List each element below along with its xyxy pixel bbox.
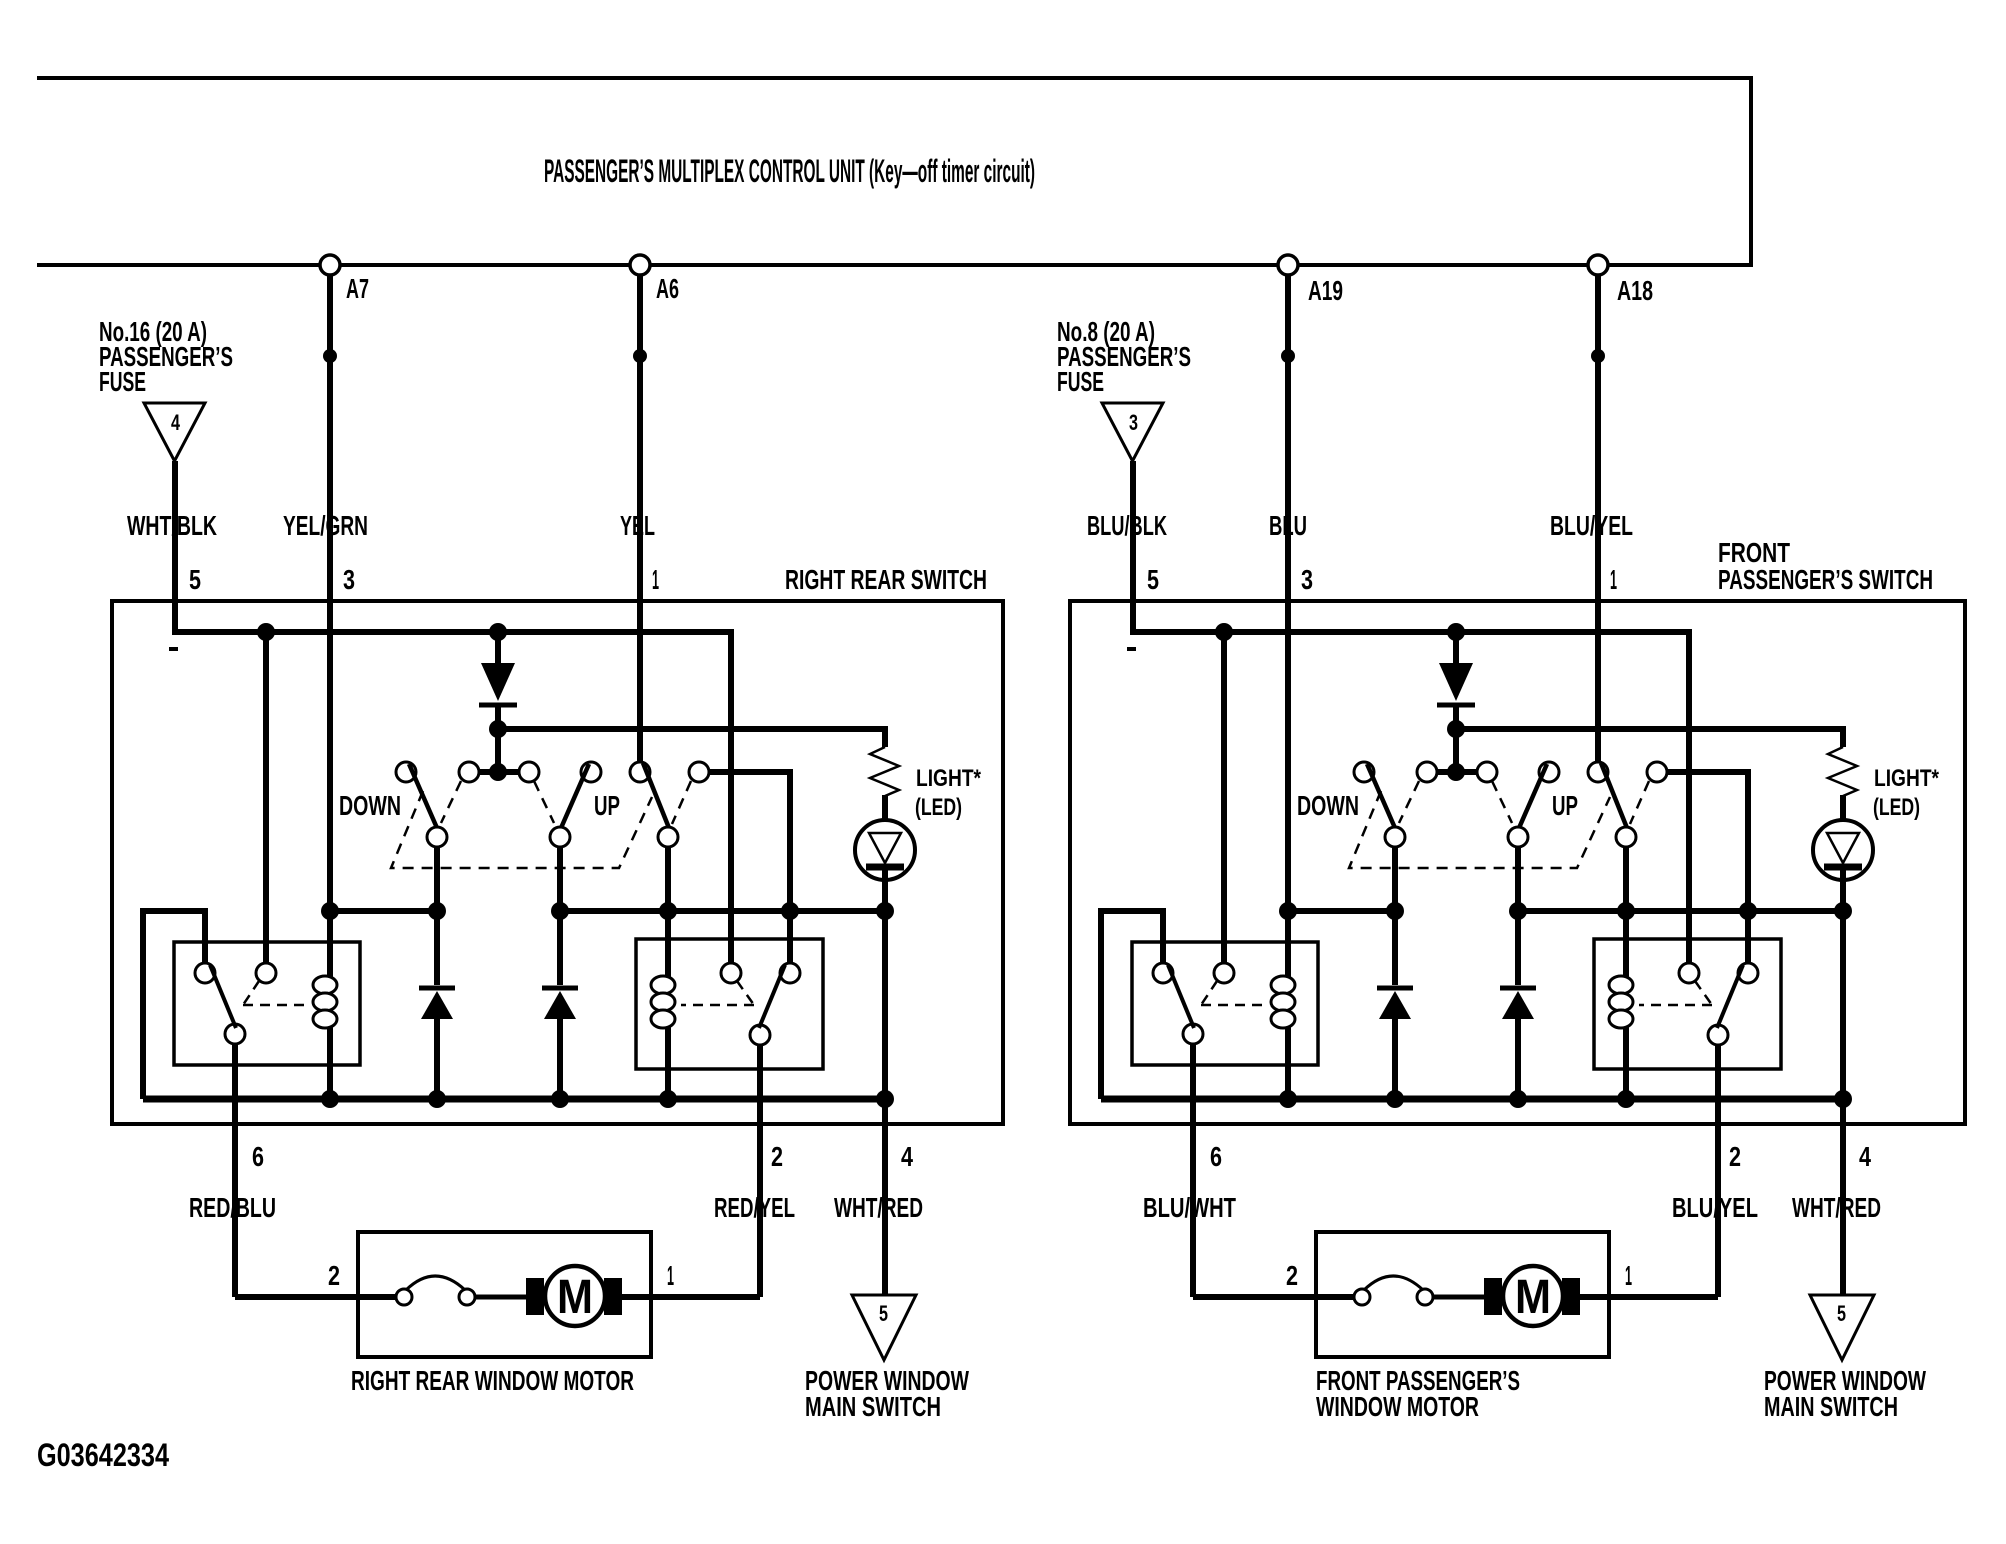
connector pin A6 circle on control unit (630, 255, 650, 275)
junction dot at switch common contact row (1447, 763, 1465, 781)
LED R-LED1 LIGHT (LED) indicator (1813, 820, 1873, 880)
relay R-K1 armature lever (1168, 965, 1194, 1028)
rocker mechanical linkage frame (dashed) (391, 791, 652, 868)
rocker mechanical linkage frame (dashed) (1349, 791, 1610, 868)
svg-text:1: 1 (1610, 564, 1617, 595)
svg-text:5: 5 (1837, 1301, 1846, 1326)
wire UP lower contact 1 to diode D3 (557, 847, 563, 985)
relay L-K1 box (174, 942, 360, 1065)
wire DOWN lower contact to diode D2 (434, 847, 440, 985)
resistor R-R1 (LED series resistor) (1828, 747, 1857, 796)
junction dot feed/relay-1 branch (1215, 623, 1233, 641)
circuit breaker in motor (396, 1289, 412, 1305)
svg-text:5: 5 (879, 1301, 888, 1326)
junction dot at switch common contact row (489, 763, 507, 781)
connector triangle 5 POWER WINDOW MAIN SWITCH (1810, 1295, 1874, 1360)
svg-text:6: 6 (252, 1141, 264, 1172)
wire breaker to motor (475, 1295, 528, 1300)
relay L-K2 common wire down to pin 2 (757, 1045, 763, 1297)
junction dot mid-bus / D3 (1509, 902, 1527, 920)
wire LED cathode down to bus and pin 4 (1840, 867, 1846, 1295)
svg-text:2: 2 (1729, 1141, 1741, 1172)
relay L-K2 linkage (dashed) (681, 981, 754, 1005)
stray scan mark (1127, 647, 1136, 651)
DOWN switch moving contact (lever) (409, 764, 437, 828)
junction dot feed/diode branch (1447, 623, 1465, 641)
svg-text:M: M (1515, 1271, 1551, 1324)
UP switch alternate position 1 (dashed) (1492, 781, 1512, 823)
wire YEL/GRN from control unit pin A7 (x=330) (327, 275, 333, 1099)
relay R-K2 coil (1609, 976, 1633, 994)
svg-text:G03642334: G03642334 (37, 1437, 169, 1473)
svg-text:WHT/RED: WHT/RED (834, 1192, 923, 1223)
wire from feed junction down to relay 1 contact (263, 632, 269, 963)
wire from feed junction down to relay 1 contact (1221, 632, 1227, 963)
UP switch lower contact circle 1 (550, 827, 570, 847)
svg-text:MAIN SWITCH: MAIN SWITCH (805, 1391, 941, 1422)
junction dot bottom bus / D3 (551, 1090, 569, 1108)
diode L-D1 (feed to switch common) (495, 632, 501, 664)
window motor box (FRONT PASSENGER'S WINDOW MOTOR) (1316, 1232, 1609, 1357)
wire LED cathode down to bus and pin 4 (882, 867, 888, 1295)
junction dot mid-bus / relay 2 coil wire (659, 902, 677, 920)
DOWN switch fixed contact circles (1354, 762, 1374, 782)
svg-text:5: 5 (1147, 564, 1159, 595)
diode R-D1 (feed to switch common) (1453, 632, 1459, 664)
connector pin A19 circle on control unit (1278, 255, 1298, 275)
svg-text:LIGHT*: LIGHT* (916, 765, 982, 792)
motor L-M1 (M) (526, 1278, 544, 1315)
wire hook from relay 1 top-left contact to bottom bus (1101, 911, 1163, 1099)
svg-text:3: 3 (1129, 410, 1138, 435)
splice dot on YEL wire (633, 349, 647, 363)
svg-text:5: 5 (189, 564, 201, 595)
UP switch moving contact lever 1 (561, 764, 589, 828)
svg-text:RED/BLU: RED/BLU (189, 1192, 276, 1223)
wire mid bus segment A (coil feed to diode D2) (1288, 908, 1395, 914)
relay R-K1 linkage (dashed) (1201, 981, 1267, 1005)
switch unit box (RIGHT REAR SWITCH) (112, 601, 1003, 1124)
wire inner top feed (from pin 5 across switch) (1130, 629, 1689, 635)
fuse symbol triangle 4 (No.16 (20 A)) (144, 403, 205, 461)
junction dot feed/diode branch (489, 623, 507, 641)
wire bottom bus (ground side) (143, 1096, 885, 1103)
wire BLU/BLK from fuse down into switch (1130, 461, 1136, 635)
junction dot mid-bus / relay 1 coil wire (321, 902, 339, 920)
svg-text:4: 4 (171, 410, 181, 435)
wire from diode junction to LIGHT (LED) resistor (498, 729, 885, 747)
svg-text:WHT/RED: WHT/RED (1792, 1192, 1881, 1223)
connector pin A7 circle on control unit (320, 255, 340, 275)
junction dot bottom bus / D2 (1386, 1090, 1404, 1108)
relay L-K1 armature lever (210, 965, 236, 1028)
wire hook from relay 1 top-left contact to bottom bus (143, 911, 205, 1099)
wire from feed down to relay 2 switch common (1686, 629, 1692, 963)
svg-text:3: 3 (343, 564, 355, 595)
DOWN switch fixed contact circles (396, 762, 416, 782)
svg-text:1: 1 (652, 564, 659, 595)
wire YEL from control unit pin A6 (x=640) (637, 275, 643, 762)
relay R-K2 linkage (dashed) (1639, 981, 1712, 1005)
wire inner top feed (from pin 5 across switch) (172, 629, 731, 635)
relay L-K1 coil (313, 976, 337, 994)
svg-text:WHT/BLK: WHT/BLK (127, 510, 217, 541)
wire motor to pin 2 wire (1580, 1294, 1718, 1300)
junction dot bottom bus / pin 4 wire (1834, 1090, 1852, 1108)
svg-text:BLU: BLU (1269, 510, 1307, 541)
svg-text:A7: A7 (346, 273, 369, 304)
relay L-K2 contact circles (721, 963, 741, 983)
motor R-M1 (M) (1484, 1278, 1502, 1315)
splice dot on BLU/YEL wire (1591, 349, 1605, 363)
relay R-K1 contact circles (1153, 963, 1173, 983)
splice dot on BLU wire (1281, 349, 1295, 363)
svg-text:YEL: YEL (620, 510, 655, 541)
UP switch fixed contact circles (1539, 762, 1559, 782)
UP switch fixed contact circles (581, 762, 601, 782)
svg-text:2: 2 (1286, 1260, 1298, 1291)
svg-text:2: 2 (328, 1260, 340, 1291)
svg-text:A18: A18 (1617, 275, 1653, 306)
relay L-K2 box (636, 939, 823, 1069)
svg-text:1: 1 (667, 1260, 674, 1291)
svg-text:M: M (557, 1271, 593, 1324)
wire UP lower contact 2 to relay 2 coil (1623, 847, 1629, 1099)
svg-text:DOWN: DOWN (1297, 790, 1359, 821)
relay L-K1 common wire down to pin 6 (232, 1044, 238, 1297)
wire BLU/WHT to motor (1193, 1294, 1354, 1300)
svg-text:PASSENGER’S SWITCH: PASSENGER’S SWITCH (1718, 564, 1933, 595)
junction dot bottom bus / relay 2 coil (1617, 1090, 1635, 1108)
wire BLU/YEL from control unit pin A18 (x=1598) (1595, 275, 1601, 762)
DOWN switch alternate position (dashed) (1399, 781, 1419, 823)
wire UP lower contact 1 to diode D3 (1515, 847, 1521, 985)
UP switch lower contact circle 2 (658, 827, 678, 847)
svg-text:2: 2 (771, 1141, 783, 1172)
UP switch moving contact lever 1 (1519, 764, 1547, 828)
svg-text:6: 6 (1210, 1141, 1222, 1172)
wire mid bus segment B (diode D3 to LED) (560, 908, 885, 914)
junction dot below diode L-D1 (LED branch) (489, 720, 507, 738)
connector pin A18 circle on control unit (1588, 255, 1608, 275)
DOWN switch alternate position (dashed) (441, 781, 461, 823)
UP switch alternate position 2 (dashed) (672, 781, 691, 824)
wire from c6 contact to relay 2 coil-side contact (709, 772, 790, 963)
relay R-K1 coil (1271, 976, 1295, 994)
svg-text:A19: A19 (1308, 275, 1343, 306)
junction dot bottom bus / relay 1 coil (1279, 1090, 1297, 1108)
wire BLU from control unit pin A19 (x=1288) (1285, 275, 1291, 1099)
UP switch moving contact lever 2 (1601, 763, 1627, 828)
svg-text:4: 4 (901, 1141, 913, 1172)
wire mid bus segment A (coil feed to diode D2) (330, 908, 437, 914)
fuse symbol triangle 3 (No.8 (20 A)) (1102, 403, 1163, 461)
svg-text:FUSE: FUSE (99, 366, 146, 397)
junction dot bottom bus / pin 4 wire (876, 1090, 894, 1108)
diode L-D3 (up side) (542, 986, 578, 991)
svg-text:RED/YEL: RED/YEL (714, 1192, 795, 1223)
svg-text:BLU/YEL: BLU/YEL (1550, 510, 1633, 541)
junction dot mid-bus / c6 wire (1739, 902, 1757, 920)
svg-text:PASSENGER’S MULTIPLEX CONTROL: PASSENGER’S MULTIPLEX CONTROL UNIT (Key—… (544, 153, 1035, 189)
svg-text:BLU/BLK: BLU/BLK (1087, 510, 1167, 541)
relay R-K2 contact circles (1679, 963, 1699, 983)
diode R-D3 (up side) (1500, 986, 1536, 991)
wire from c6 contact to relay 2 coil-side contact (1667, 772, 1748, 963)
svg-text:UP: UP (1552, 790, 1578, 821)
junction dot mid-bus / D3 (551, 902, 569, 920)
relay R-K2 common wire down to pin 2 (1715, 1045, 1721, 1297)
junction dot mid-bus / relay 1 coil wire (1279, 902, 1297, 920)
connector triangle 5 POWER WINDOW MAIN SWITCH (852, 1295, 916, 1360)
svg-text:RIGHT REAR WINDOW MOTOR: RIGHT REAR WINDOW MOTOR (351, 1365, 634, 1396)
svg-text:(LED): (LED) (1873, 794, 1920, 821)
window motor box (RIGHT REAR WINDOW MOTOR) (358, 1232, 651, 1357)
diode L-D2 (down side) (419, 986, 455, 991)
relay L-K2 armature lever (759, 965, 785, 1028)
relay R-K1 common wire down to pin 6 (1190, 1044, 1196, 1297)
LED L-LED1 LIGHT (LED) indicator (855, 820, 915, 880)
svg-text:A6: A6 (656, 273, 679, 304)
wire from feed down to relay 2 switch common (728, 629, 734, 963)
wire motor to pin 2 wire (622, 1294, 760, 1300)
svg-text:DOWN: DOWN (339, 790, 401, 821)
svg-text:BLU/YEL: BLU/YEL (1672, 1192, 1758, 1223)
wire resistor to LED (882, 795, 888, 836)
junction dot bottom bus / relay 2 coil (659, 1090, 677, 1108)
svg-text:WINDOW MOTOR: WINDOW MOTOR (1316, 1391, 1479, 1422)
DOWN switch lower contact circle (1385, 827, 1405, 847)
junction dot below diode R-D1 (LED branch) (1447, 720, 1465, 738)
wire linking DOWN contacts (with common) (479, 769, 519, 775)
junction dot mid-bus / relay 2 coil wire (1617, 902, 1635, 920)
relay L-K1 contact circles (195, 963, 215, 983)
UP switch alternate position 1 (dashed) (534, 781, 554, 823)
svg-text:YEL/GRN: YEL/GRN (283, 510, 368, 541)
wire linking DOWN contacts (with common) (1437, 769, 1477, 775)
relay R-K1 box (1132, 942, 1318, 1065)
switch unit box (FRONT PASSENGER'S SWITCH) (1070, 601, 1965, 1124)
svg-text:(LED): (LED) (915, 794, 962, 821)
junction dot mid-bus / LED wire (1834, 902, 1852, 920)
wire DOWN lower contact to diode D2 (1392, 847, 1398, 985)
svg-text:1: 1 (1625, 1260, 1632, 1291)
wire breaker to motor (1433, 1295, 1486, 1300)
UP switch moving contact lever 2 (643, 763, 669, 828)
junction dot bottom bus / D3 (1509, 1090, 1527, 1108)
junction dot bottom bus / D2 (428, 1090, 446, 1108)
stray scan mark (169, 647, 178, 651)
relay L-K1 linkage (dashed) (243, 981, 309, 1005)
relay R-K2 box (1594, 939, 1781, 1069)
wire bottom bus (ground side) (1101, 1096, 1843, 1103)
UP switch lower contact circle 2 (1616, 827, 1636, 847)
wire WHT/BLK from fuse down into switch (172, 461, 178, 635)
wire from diode junction to LIGHT (LED) resistor (1456, 729, 1843, 747)
junction dot mid-bus / c6 wire (781, 902, 799, 920)
junction dot feed/relay-1 branch (257, 623, 275, 641)
UP switch alternate position 2 (dashed) (1630, 781, 1649, 824)
junction dot mid-bus / D2 (428, 902, 446, 920)
svg-text:4: 4 (1859, 1141, 1871, 1172)
wire resistor to LED (1840, 795, 1846, 836)
splice dot on YEL/GRN wire (323, 349, 337, 363)
svg-text:UP: UP (594, 790, 620, 821)
svg-text:FUSE: FUSE (1057, 366, 1104, 397)
diode R-D2 (down side) (1377, 986, 1413, 991)
junction dot bottom bus / relay 1 coil (321, 1090, 339, 1108)
svg-text:LIGHT*: LIGHT* (1874, 765, 1940, 792)
svg-text:BLU/WHT: BLU/WHT (1143, 1192, 1236, 1223)
junction dot mid-bus / LED wire (876, 902, 894, 920)
circuit breaker in motor (1354, 1289, 1370, 1305)
svg-text:RIGHT REAR SWITCH: RIGHT REAR SWITCH (785, 564, 987, 595)
wire UP lower contact 2 to relay 2 coil (665, 847, 671, 1099)
DOWN switch lower contact circle (427, 827, 447, 847)
wire mid bus segment B (diode D3 to LED) (1518, 908, 1843, 914)
resistor L-R1 (LED series resistor) (870, 747, 899, 796)
svg-text:MAIN SWITCH: MAIN SWITCH (1764, 1391, 1898, 1422)
UP switch lower contact circle 1 (1508, 827, 1528, 847)
junction dot mid-bus / D2 (1386, 902, 1404, 920)
wire RED/BLU to motor (235, 1294, 396, 1300)
DOWN switch moving contact (lever) (1367, 764, 1395, 828)
relay R-K2 armature lever (1717, 965, 1743, 1028)
relay L-K2 coil (651, 976, 675, 994)
multiplex control unit box (PASSENGER'S MULTIPLEX CONTROL UNIT) (37, 78, 1751, 265)
svg-text:3: 3 (1301, 564, 1313, 595)
